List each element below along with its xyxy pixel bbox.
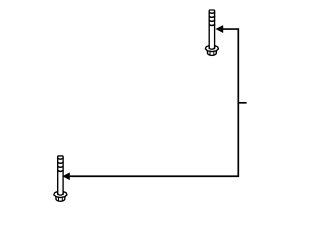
tick (part-number stub on vertical wire) [238,102,246,104]
wire leader polyline (right angle bracket joining both bolts) [69,29,238,176]
bolt B2 (lower left flange bolt) [54,156,67,201]
arrowhead to bolt B1 [216,25,224,33]
bolt B1 (upper right flange bolt) [205,10,218,55]
arrowhead to bolt B2 [62,172,69,180]
